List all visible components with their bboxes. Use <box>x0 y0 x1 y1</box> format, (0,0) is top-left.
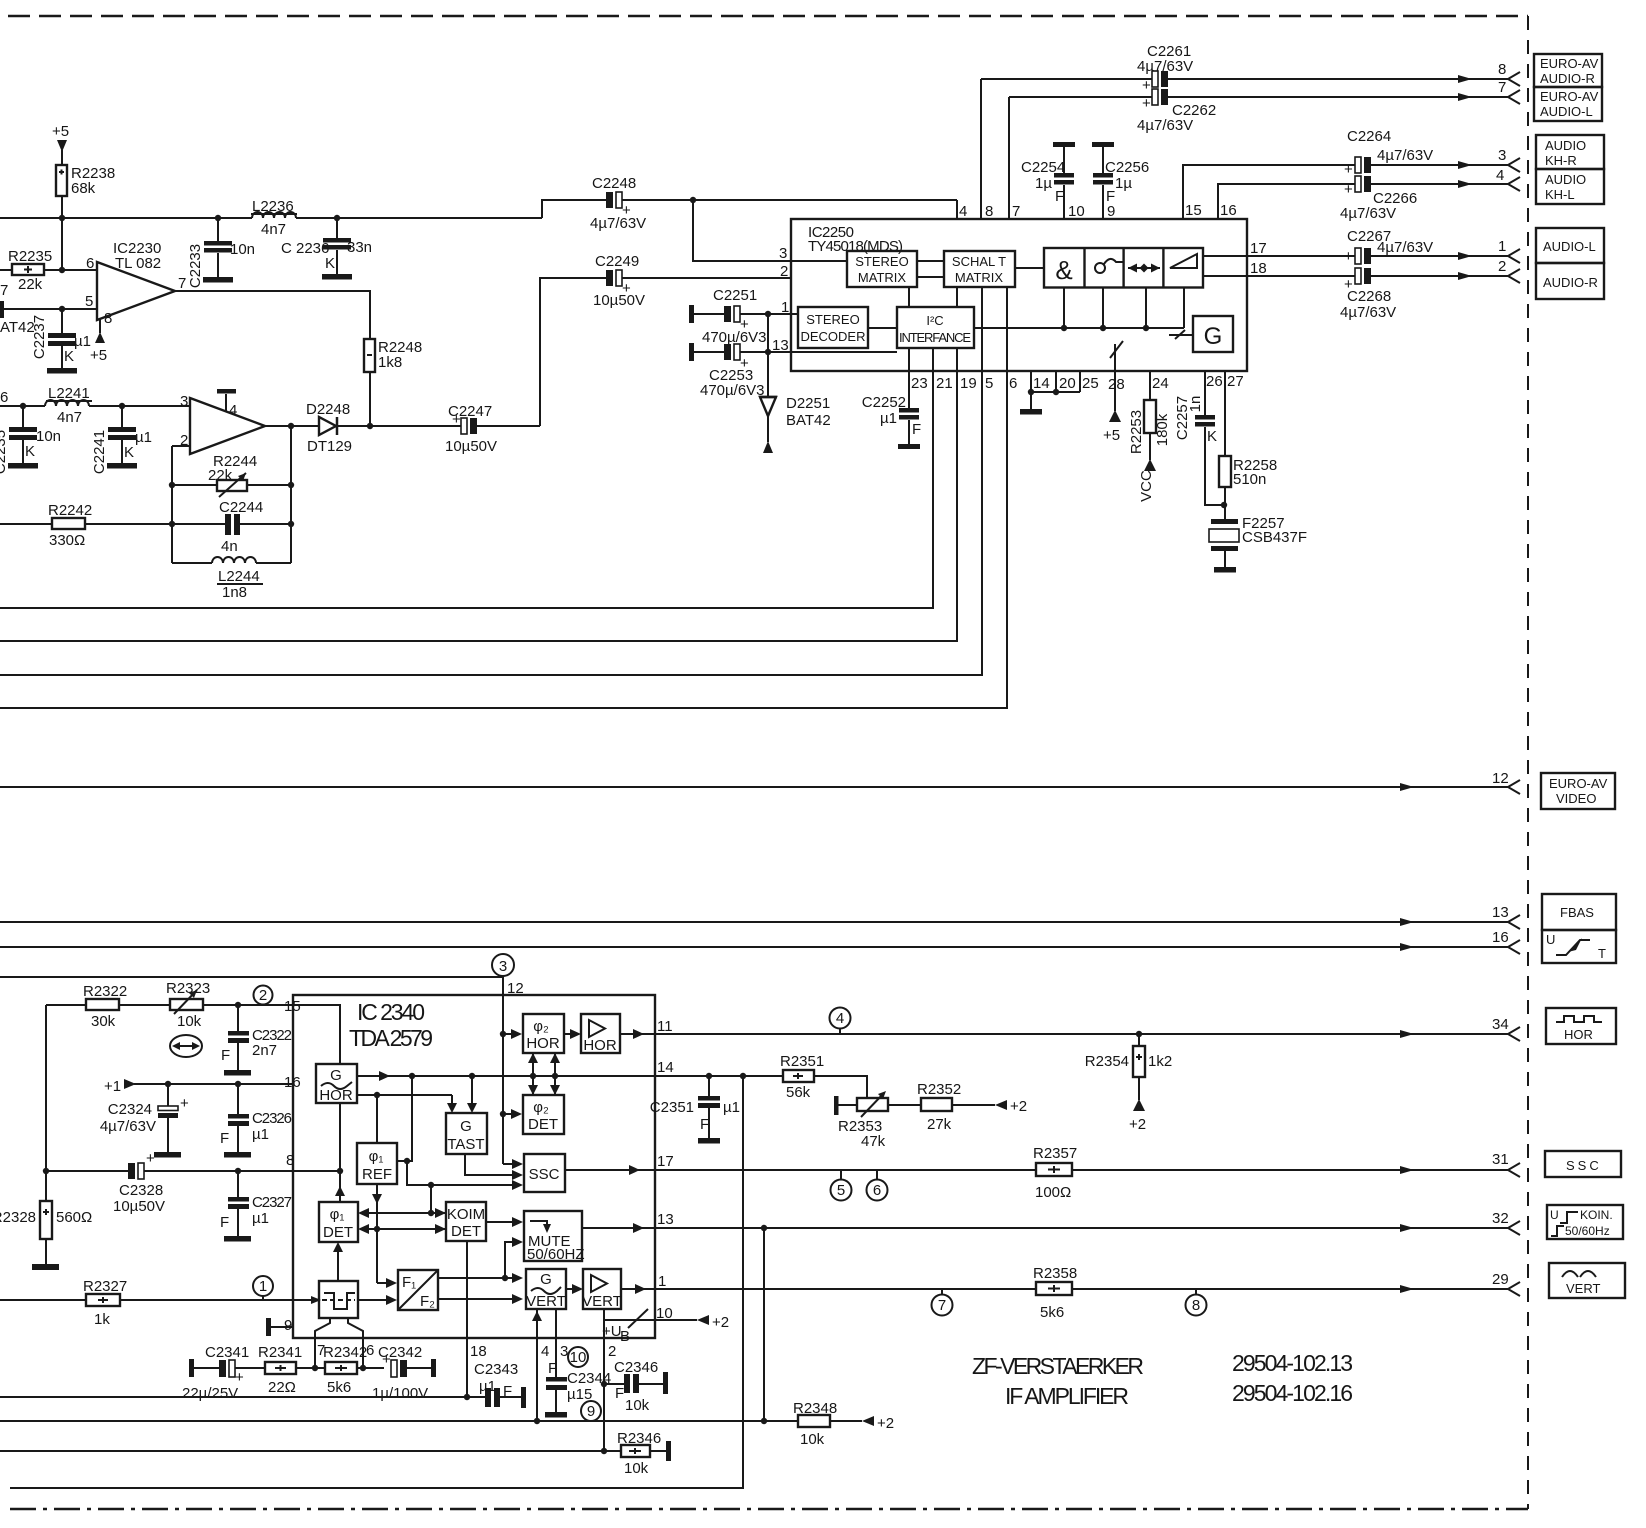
svg-text:+2: +2 <box>1129 1116 1146 1133</box>
block row AND/hook/transfer/ramp <box>1044 248 1203 288</box>
svg-text:+: + <box>235 1369 244 1386</box>
svg-text:F: F <box>221 1047 230 1064</box>
svg-text:1k2: 1k2 <box>1148 1053 1172 1070</box>
svg-text:R2253: R2253 <box>1128 410 1145 454</box>
svg-text:17: 17 <box>657 1153 674 1170</box>
svg-text:4: 4 <box>959 203 967 220</box>
svg-text:12: 12 <box>507 980 524 997</box>
svg-text:10k: 10k <box>177 1013 202 1030</box>
svg-text:VIDEO: VIDEO <box>1556 791 1596 806</box>
svg-text:15: 15 <box>1185 202 1202 219</box>
svg-text:R2357: R2357 <box>1033 1145 1077 1162</box>
capacitor C2343 u1 F <box>474 1361 526 1408</box>
op-amp IC2230 TL082 <box>85 240 186 320</box>
G VERT pin3 to C2344 <box>556 1309 568 1377</box>
wire pin13 to border 32 <box>655 1210 1520 1421</box>
connector EURO-AV AUDIO-R <box>1534 54 1602 87</box>
resistor R2327 1k on pin5 wire <box>0 1278 321 1328</box>
svg-text:+: + <box>1344 181 1353 198</box>
svg-text:4µ7/63V: 4µ7/63V <box>590 215 646 232</box>
svg-text:&: & <box>1055 255 1072 285</box>
svg-text:22k: 22k <box>208 467 233 484</box>
block G VERT <box>526 1269 566 1310</box>
svg-text:FBAS: FBAS <box>1560 905 1594 920</box>
svg-text:U: U <box>1546 932 1555 947</box>
svg-text:4: 4 <box>541 1343 549 1360</box>
double arrows phi2HOR-phi2DET <box>528 1053 560 1095</box>
VERT amp pin2 vertical <box>601 1309 617 1454</box>
svg-text:G: G <box>330 1067 342 1084</box>
resistor R2328 560ohm <box>0 1201 92 1270</box>
svg-text:KOIM: KOIM <box>447 1206 485 1223</box>
svg-text:K: K <box>124 444 134 461</box>
svg-text:DET: DET <box>323 1224 353 1241</box>
svg-text:F: F <box>700 1116 709 1133</box>
svg-text:C2343: C2343 <box>474 1361 518 1378</box>
svg-text:+2: +2 <box>1010 1098 1027 1115</box>
wire pin1 to border 29 <box>655 1271 1520 1296</box>
svg-text:4µ7/63V: 4µ7/63V <box>1137 58 1193 75</box>
svg-text:R2342: R2342 <box>323 1344 367 1361</box>
svg-text:56k: 56k <box>786 1084 811 1101</box>
svg-text:F: F <box>615 1385 624 1402</box>
resistor R2357 100ohm <box>1033 1145 1077 1201</box>
wire opamp1 output to R2248 <box>175 291 370 339</box>
svg-text:32: 32 <box>1492 1210 1509 1227</box>
connector U-ramp-T <box>1542 930 1616 963</box>
capacitor C2247 10u50V polarized <box>370 278 607 455</box>
svg-text:F: F <box>1055 188 1064 205</box>
svg-text:G: G <box>460 1118 472 1135</box>
supply +1 arrow <box>104 1078 293 1095</box>
svg-text:3: 3 <box>499 958 507 975</box>
svg-text:100Ω: 100Ω <box>1035 1184 1071 1201</box>
C2341 R2341 R2342 C2342 chain <box>182 1344 265 1402</box>
svg-text:C2249: C2249 <box>595 253 639 270</box>
F1F2 outputs to G VERT <box>438 1237 523 1304</box>
svg-text:47k: 47k <box>861 1133 886 1150</box>
block SCHALT MATRIX <box>944 251 1015 287</box>
svg-text:5: 5 <box>837 1182 845 1199</box>
svg-text:φ₁: φ₁ <box>369 1148 384 1165</box>
wire pin5 <box>0 306 97 312</box>
svg-text:4µ7/63V: 4µ7/63V <box>1377 147 1433 164</box>
svg-text:EURO-AV: EURO-AV <box>1540 56 1599 71</box>
wire EURO-AV VIDEO pin12 <box>0 770 1520 794</box>
svg-text:10: 10 <box>656 1305 673 1322</box>
IC2250 pin 15 wire to C2264 KH-R <box>1183 128 1520 219</box>
pin 8 wire inside <box>286 1152 340 1171</box>
inductor L2236 4n7 <box>251 198 297 238</box>
svg-text:VERT: VERT <box>1566 1281 1600 1296</box>
connector HOR <box>1546 1008 1616 1044</box>
svg-text:DET: DET <box>451 1223 481 1240</box>
wire to node 3 <box>0 976 503 978</box>
pin 10 +UB line <box>602 1305 729 1345</box>
block SSC <box>524 1154 565 1192</box>
svg-text:4: 4 <box>229 402 237 419</box>
svg-text:16: 16 <box>1492 929 1509 946</box>
svg-text:5: 5 <box>985 375 993 392</box>
svg-text:+: + <box>1344 161 1353 178</box>
block phi1 REF <box>357 1143 397 1184</box>
svg-text:R2358: R2358 <box>1033 1265 1077 1282</box>
svg-text:50/60HZ: 50/60HZ <box>527 1246 585 1263</box>
svg-text:IF AMPLIFIER: IF AMPLIFIER <box>1005 1383 1129 1409</box>
svg-text:R2328: R2328 <box>0 1209 36 1226</box>
svg-text:HOR: HOR <box>583 1037 617 1054</box>
svg-text:R2235: R2235 <box>8 248 52 265</box>
resistor R2341 22ohm <box>258 1344 325 1396</box>
svg-text:DET: DET <box>528 1116 558 1133</box>
svg-text:VERT: VERT <box>582 1293 622 1310</box>
IC2250 pins to bus: pin21 <box>0 348 933 608</box>
internal verticals to bottom bus <box>974 288 1193 340</box>
svg-text:R2352: R2352 <box>917 1081 961 1098</box>
svg-text:25: 25 <box>1082 375 1099 392</box>
block I2C INTERFANCE <box>897 307 974 348</box>
connector EURO-AV AUDIO-L <box>1534 87 1602 121</box>
svg-text:K: K <box>64 348 74 365</box>
svg-text:F₁: F₁ <box>402 1274 416 1291</box>
resonator F2257 CSB437F <box>1209 515 1307 573</box>
KOIM DET right to MUTE <box>486 1217 523 1227</box>
block G TAST <box>446 1113 487 1154</box>
svg-text:7: 7 <box>0 282 8 299</box>
svg-text:7: 7 <box>1012 203 1020 220</box>
svg-text:C2252: C2252 <box>862 394 906 411</box>
svg-text:I²C: I²C <box>926 313 943 328</box>
G VERT to VERT amp arrow <box>566 1284 583 1294</box>
block phi2 HOR <box>523 1014 564 1053</box>
connector EURO-AV VIDEO <box>1541 773 1615 809</box>
svg-text:4µ7/63V: 4µ7/63V <box>1340 205 1396 222</box>
svg-text:C2264: C2264 <box>1347 128 1391 145</box>
svg-text:+1: +1 <box>104 1078 121 1095</box>
svg-text:φ₂: φ₂ <box>533 1099 549 1116</box>
svg-text:8: 8 <box>104 310 112 327</box>
svg-text:12: 12 <box>1492 770 1509 787</box>
svg-text:2n7: 2n7 <box>252 1042 277 1059</box>
svg-text:+2: +2 <box>877 1415 894 1432</box>
svg-text:ZF-VERSTAERKER: ZF-VERSTAERKER <box>972 1353 1144 1379</box>
pin 17 inner segment <box>1203 255 1247 257</box>
pin19 <box>0 348 957 641</box>
svg-text:IC 2340: IC 2340 <box>357 999 425 1025</box>
svg-text:F₂: F₂ <box>420 1293 435 1310</box>
svg-text:18: 18 <box>470 1343 487 1360</box>
svg-text:µ1: µ1 <box>135 429 152 446</box>
svg-text:T: T <box>1598 946 1606 961</box>
svg-text:+5: +5 <box>90 347 107 364</box>
svg-text:HOR: HOR <box>526 1035 560 1052</box>
svg-text:50/60Hz: 50/60Hz <box>1565 1224 1610 1238</box>
capacitor C2346 <box>604 1359 668 1414</box>
connector AUDIO KH-R <box>1536 135 1604 169</box>
svg-text:C2346: C2346 <box>614 1359 658 1376</box>
frame border dashed top <box>8 15 1528 18</box>
svg-text:15: 15 <box>284 998 301 1015</box>
block VERT amp <box>582 1269 622 1310</box>
svg-text:9: 9 <box>1107 203 1115 220</box>
G HOR lower output to G TAST and phi1 REF <box>357 1092 457 1143</box>
diode D2251 BAT42 <box>759 314 831 453</box>
capacitor C2237 u1 K <box>31 309 91 374</box>
resistor R2322 30k <box>46 983 170 1030</box>
arrow phi2HOR to HOR amp <box>564 1029 581 1039</box>
node circled 7 <box>932 1289 953 1316</box>
capacitor C2328 10u50V <box>46 1150 293 1215</box>
svg-text:29504-102.13: 29504-102.13 <box>1232 1350 1353 1376</box>
svg-text:µ1: µ1 <box>74 333 91 350</box>
vertical bias rail x46 <box>43 1005 49 1201</box>
svg-text:7: 7 <box>938 1297 946 1314</box>
svg-text:1: 1 <box>1498 238 1506 255</box>
svg-text:AT42: AT42 <box>0 319 35 336</box>
SSC output pin17 <box>565 1153 674 1175</box>
frame border dash-dot bottom <box>10 1508 1528 1511</box>
KOIM DET bottom to pin18 <box>467 1241 487 1397</box>
svg-text:U: U <box>1550 1208 1559 1222</box>
resistor R2248 1k8 <box>364 339 422 426</box>
connector U-KOIN 50/60Hz <box>1547 1205 1623 1239</box>
svg-text:R2327: R2327 <box>83 1278 127 1295</box>
capacitor C2327 u1 F <box>220 1171 292 1242</box>
capacitor C2248 4u7/63V <box>590 175 957 261</box>
svg-text:VERT: VERT <box>526 1293 566 1310</box>
svg-text:INTERFANCE: INTERFANCE <box>899 330 971 345</box>
svg-text:4µ7/63V: 4µ7/63V <box>1377 239 1433 256</box>
wire R2346 y1451 <box>0 1450 621 1452</box>
svg-text:EURO-AV: EURO-AV <box>1540 89 1599 104</box>
svg-text:HOR: HOR <box>1564 1027 1593 1042</box>
svg-text:16: 16 <box>284 1074 301 1091</box>
svg-text:26: 26 <box>1206 373 1223 390</box>
svg-text:22Ω: 22Ω <box>268 1379 296 1396</box>
svg-text:6: 6 <box>366 1342 374 1359</box>
svg-text:1: 1 <box>781 299 789 316</box>
block HOR amp <box>581 1014 620 1054</box>
resistor R2358 5k6 <box>1033 1265 1077 1321</box>
svg-text:R2341: R2341 <box>258 1344 302 1361</box>
G HOR bottom to phi1 DET <box>335 1103 345 1202</box>
block STEREO MATRIX <box>847 251 917 287</box>
node circled 5 <box>831 1170 852 1201</box>
svg-text:AUDIO: AUDIO <box>1545 138 1586 153</box>
svg-text:R2348: R2348 <box>793 1400 837 1417</box>
svg-text:3: 3 <box>1498 147 1506 164</box>
phi1 REF bottom to F1F2 <box>372 1184 397 1288</box>
svg-text:MATRIX: MATRIX <box>955 270 1003 285</box>
svg-text:6: 6 <box>873 1182 881 1199</box>
svg-text:C2247: C2247 <box>448 403 492 420</box>
node circled 8 <box>1186 1289 1207 1316</box>
wire U-T pin16 <box>0 929 1520 954</box>
capacitor C2233 10n <box>187 218 255 288</box>
svg-text:21: 21 <box>936 375 953 392</box>
pin5 <box>0 287 982 675</box>
pin 11 HOR output <box>620 1018 673 1039</box>
pin14/20/25 ground <box>1020 371 1099 415</box>
wire phi1DET-KOIM lower <box>358 1224 446 1234</box>
capacitor C2257 1n K on pin 26 <box>1174 371 1224 505</box>
pin 15 label and wire <box>284 998 340 1064</box>
resistor R2354 1k2 <box>1085 1034 1172 1133</box>
svg-text:D2251: D2251 <box>786 395 830 412</box>
svg-text:180k: 180k <box>1154 413 1171 446</box>
resistor R2235 22k <box>0 218 97 293</box>
svg-text:2: 2 <box>608 1343 616 1360</box>
connector AUDIO-L <box>1536 228 1604 263</box>
svg-text:CSB437F: CSB437F <box>1242 529 1307 546</box>
return wire x743 to bottom <box>10 1076 743 1488</box>
phi1 REF right output up to bus <box>397 1076 412 1164</box>
connector AUDIO KH-L <box>1536 169 1604 204</box>
svg-text:10n: 10n <box>230 241 255 258</box>
svg-text:8: 8 <box>286 1152 294 1169</box>
svg-text:29: 29 <box>1492 1271 1509 1288</box>
svg-text:1n8: 1n8 <box>222 584 247 601</box>
svg-text:330Ω: 330Ω <box>49 532 85 549</box>
svg-text:AUDIO-L: AUDIO-L <box>1540 104 1593 119</box>
svg-text:C2251: C2251 <box>713 287 757 304</box>
svg-text:L2244: L2244 <box>218 568 260 585</box>
svg-text:µ1: µ1 <box>252 1210 269 1227</box>
svg-text:14: 14 <box>1033 375 1050 392</box>
resistor R2351 56k <box>780 1053 867 1101</box>
svg-text:4n7: 4n7 <box>57 409 82 426</box>
resistor R2346 10k <box>617 1430 671 1477</box>
svg-text:+: + <box>1142 77 1151 94</box>
svg-text:1µ: 1µ <box>1115 175 1132 192</box>
svg-text:22µ/25V: 22µ/25V <box>182 1385 238 1402</box>
svg-text:TAST: TAST <box>447 1136 484 1153</box>
resistor R2258 510n on pin 27 <box>1219 371 1277 520</box>
G HOR output bus y1076 <box>357 1071 655 1081</box>
capacitor C2256 1uF <box>1092 142 1149 220</box>
svg-text:R2354: R2354 <box>1085 1053 1129 1070</box>
svg-text:3: 3 <box>779 245 787 262</box>
svg-text:DECODER: DECODER <box>800 329 865 344</box>
svg-text:10µ50V: 10µ50V <box>593 292 645 309</box>
wire pin11 to HOR border 34 <box>655 1016 1520 1041</box>
svg-text:C2342: C2342 <box>378 1344 422 1361</box>
svg-text:TL 082: TL 082 <box>115 255 161 272</box>
capacitor C2235 10n K <box>0 406 61 474</box>
block STEREO DECODER <box>798 307 868 348</box>
svg-text:TY45018(MDS): TY45018(MDS) <box>808 238 903 255</box>
svg-text:1k: 1k <box>94 1311 110 1328</box>
frame border dashed right <box>1527 16 1529 1509</box>
IC2340 TDA2579 outline <box>293 995 655 1338</box>
capacitor C2252 u1 on pin 23 <box>862 348 928 449</box>
svg-text:1µ/100V: 1µ/100V <box>372 1385 428 1402</box>
svg-text:R2323: R2323 <box>166 980 210 997</box>
block phi2 DET <box>523 1095 564 1134</box>
block MUTE 50/60HZ <box>524 1211 585 1263</box>
svg-text:6: 6 <box>86 255 94 272</box>
svg-text:F: F <box>220 1214 229 1231</box>
svg-text:4µ7/63V: 4µ7/63V <box>1137 117 1193 134</box>
capacitor C2244 4n <box>172 499 291 555</box>
svg-text:20: 20 <box>1059 375 1076 392</box>
svg-text:34: 34 <box>1492 1016 1509 1033</box>
svg-text:17: 17 <box>1250 240 1267 257</box>
svg-text:30k: 30k <box>91 1013 116 1030</box>
svg-text:C2256: C2256 <box>1105 159 1149 176</box>
sync sep legs to pins 7 and 6 <box>315 1318 374 1368</box>
wire main y218 <box>0 215 542 221</box>
resistor R2238 68k <box>56 165 115 218</box>
svg-text:1: 1 <box>658 1273 666 1290</box>
svg-text:C2341: C2341 <box>205 1344 249 1361</box>
block G generator <box>1193 316 1233 352</box>
node circled 9 <box>581 1401 601 1421</box>
capacitor C2344 u15 to ground <box>545 1360 611 1418</box>
pin 28 +5 <box>1103 341 1125 444</box>
svg-text:11: 11 <box>657 1018 673 1035</box>
svg-text:10µ50V: 10µ50V <box>445 438 497 455</box>
svg-text:9: 9 <box>284 1317 292 1334</box>
pin 13 network C2253 470u/6V3 <box>689 337 897 399</box>
svg-text:4n7: 4n7 <box>261 221 286 238</box>
connector VERT <box>1549 1263 1625 1298</box>
pin 18 inner segment <box>1203 275 1247 277</box>
svg-text:µ1: µ1 <box>252 1126 269 1143</box>
svg-text:+5: +5 <box>52 123 69 140</box>
svg-text:18: 18 <box>1250 260 1267 277</box>
svg-text:R2322: R2322 <box>83 983 127 1000</box>
IC2250 TY45018(MDS) outline <box>791 219 1247 371</box>
svg-text:C2327: C2327 <box>252 1194 292 1211</box>
svg-text:µ1: µ1 <box>880 410 897 427</box>
node circled 6 <box>867 1170 888 1201</box>
branch to G TAST second arrow <box>467 1076 477 1113</box>
svg-text:D2248: D2248 <box>306 401 350 418</box>
svg-text:8: 8 <box>1192 1297 1200 1314</box>
svg-text:µ1: µ1 <box>479 1378 496 1395</box>
svg-text:C2237: C2237 <box>31 315 48 359</box>
pin6 <box>0 287 1007 708</box>
svg-text:C2328: C2328 <box>119 1182 163 1199</box>
svg-text:B: B <box>620 1328 630 1345</box>
svg-text:DT129: DT129 <box>307 438 352 455</box>
svg-text:R2346: R2346 <box>617 1430 661 1447</box>
svg-text:+: + <box>180 1095 189 1112</box>
svg-text:10k: 10k <box>800 1431 825 1448</box>
svg-text:STEREO: STEREO <box>855 254 908 269</box>
svg-text:C 2236: C 2236 <box>281 240 329 257</box>
svg-text:KOIN.: KOIN. <box>1580 1208 1613 1222</box>
G TAST bottom to SSC <box>465 1154 523 1180</box>
wire R2348 y1421 <box>0 1418 798 1424</box>
svg-text:F: F <box>548 1360 557 1377</box>
resistor R2242 330ohm <box>0 502 172 549</box>
svg-text:7: 7 <box>178 275 186 292</box>
svg-text:TDA 2579: TDA 2579 <box>349 1025 433 1051</box>
wire FBAS pin13 <box>0 904 1520 929</box>
diode BAT42 fragment at left edge <box>0 301 4 318</box>
wire pin17 SSC to border 31 <box>655 1151 1520 1177</box>
inductor L2244 1n8 <box>172 557 291 601</box>
resistor R2323 10k variable <box>166 980 293 1030</box>
block sync separator <box>319 1281 358 1318</box>
feedback loop verticals <box>169 423 294 563</box>
connector FBAS <box>1542 894 1616 930</box>
svg-text:10k: 10k <box>625 1397 650 1414</box>
IC2250 top pin 8 wire to C2261 <box>981 43 1520 220</box>
svg-text:22k: 22k <box>18 276 43 293</box>
